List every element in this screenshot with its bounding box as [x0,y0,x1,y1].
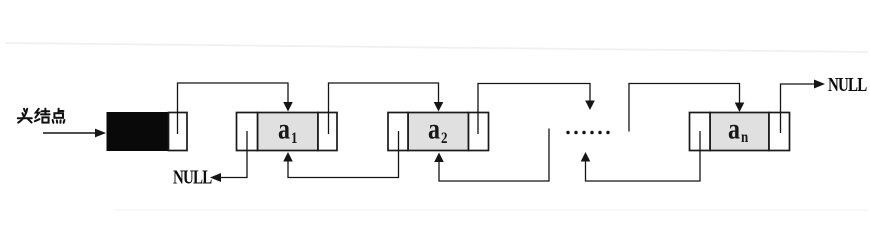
svg-text:2: 2 [441,130,447,147]
char 点 [53,109,65,123]
wire: a1 prev pointer to NULL (bottom left) [220,131,247,178]
svg-text:a: a [428,112,440,145]
label a1 [278,112,297,147]
arrowhead down above ellipsis [585,101,595,111]
svg-text:a: a [278,112,290,145]
faint scan streak bottom [115,209,868,211]
label a2 [428,112,447,147]
wire: an prev pointer back toward ellipsis [586,131,701,181]
wire: a1 next pointer to node a2 [329,83,439,134]
label 头结点 (drawn strokes) [18,109,65,123]
faint scan streak top [5,43,868,52]
svg-text:NULL: NULL [828,74,867,95]
label NULL bottom left [173,167,212,188]
char 头 [18,109,32,123]
head node (black) [107,113,187,151]
char 结 [35,109,50,123]
ellipsis dots [566,131,609,134]
wire: an next pointer to NULL (top right) [781,84,817,133]
svg-text:NULL: NULL [173,167,212,188]
svg-text:a: a [728,112,740,145]
svg-text:n: n [741,129,748,146]
head node next-pointer cell [169,113,188,151]
wire: ellipsis prev pointer back to a2 [439,129,549,182]
arrowhead up into a2 bottom [434,153,444,163]
arrowhead up into a1 bottom [283,152,293,162]
node a1 box [237,113,338,151]
arrowhead up below ellipsis [581,152,591,162]
node a2 box [388,113,489,151]
arrowhead down into a1 [283,102,293,112]
wire: head next pointer to node a1 [178,83,289,134]
svg-text:1: 1 [291,130,297,147]
wire: a2 next pointer toward ellipsis [478,84,590,135]
arrowhead right to NULL [814,80,825,89]
arrowhead down into an [735,103,745,113]
arrow from 头结点 to head node [43,129,106,138]
arrowhead left to NULL [210,173,221,182]
node an box [690,113,790,151]
wire: ellipsis next pointer to node an [629,84,740,132]
wire: a2 prev pointer back to a1 [288,131,399,178]
label an [728,112,748,146]
arrowhead down into a2 [434,102,444,112]
label NULL top right [828,74,867,95]
